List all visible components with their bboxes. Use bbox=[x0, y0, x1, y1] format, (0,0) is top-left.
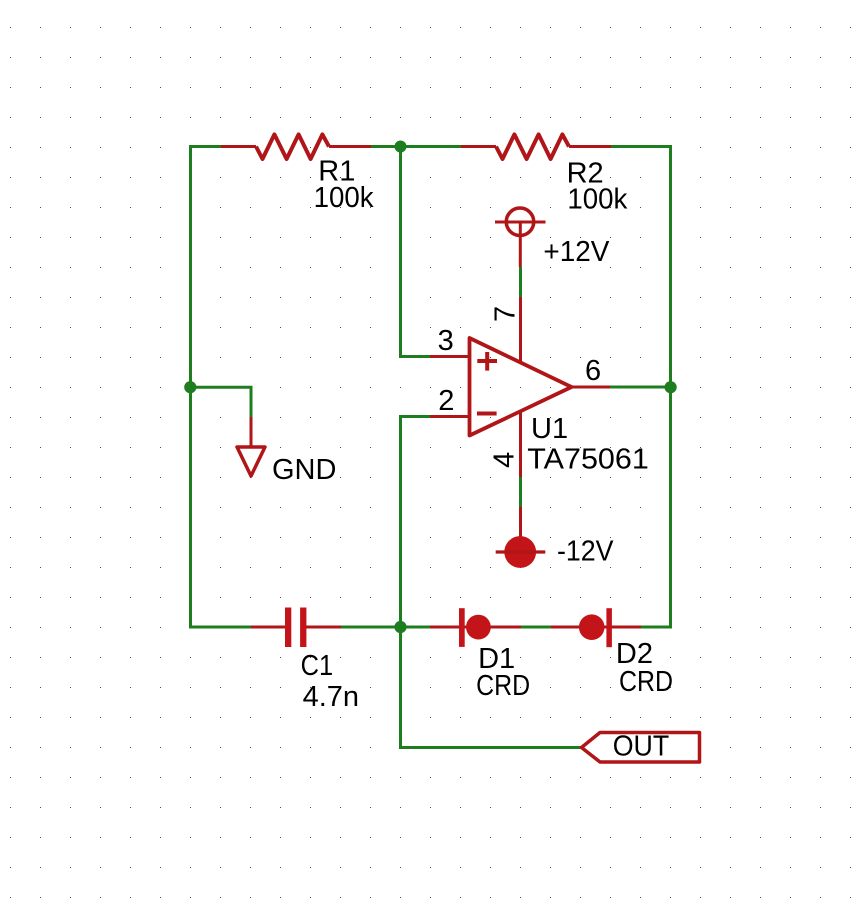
svg-text:U1: U1 bbox=[531, 413, 568, 445]
wire right branch: top-right corner, right vertical, bottom-right stub bbox=[611, 147, 671, 628]
junction node at top wire bbox=[395, 141, 407, 153]
wire stub -12V supply to pin 4 bbox=[519, 477, 522, 507]
wire top middle segment between R1 and R2 through node bbox=[371, 145, 461, 148]
op-amp pin 3 lead bbox=[430, 355, 469, 358]
svg-text:100k: 100k bbox=[567, 184, 627, 216]
op-amp pin 2 lead bbox=[430, 415, 469, 418]
op-amp U1 triangle body bbox=[470, 338, 572, 436]
wire bottom segment C1 to D1 through node bbox=[341, 626, 430, 629]
junction node left at GND branch bbox=[184, 381, 196, 393]
svg-text:100k: 100k bbox=[314, 182, 374, 214]
GND ground symbol bbox=[237, 417, 265, 476]
svg-text:+12V: +12V bbox=[543, 236, 610, 268]
wire op-amp output to right vertical bbox=[610, 386, 671, 389]
svg-text:C1: C1 bbox=[301, 650, 334, 682]
svg-text:CRD: CRD bbox=[619, 666, 673, 698]
svg-text:2: 2 bbox=[438, 385, 454, 417]
op-amp plus marking (non-inverting input) bbox=[477, 352, 497, 371]
diode D2 (CRD, mirrored) bbox=[551, 608, 641, 647]
wire stub +12V supply to pin 7 bbox=[519, 267, 522, 297]
-12V power supply symbol bbox=[496, 507, 546, 568]
junction node right at op-amp output bbox=[665, 381, 677, 393]
op-amp pin 4 supply lead bbox=[519, 411, 522, 477]
svg-text:GND: GND bbox=[272, 454, 336, 486]
svg-text:OUT: OUT bbox=[613, 731, 670, 763]
wire bottom segment D1 to D2 bbox=[519, 626, 556, 629]
wire GND branch from left node bbox=[191, 387, 252, 417]
op-amp pin 6 output lead bbox=[572, 386, 611, 389]
op-amp pin 7 supply lead bbox=[519, 297, 522, 363]
svg-text:7: 7 bbox=[489, 306, 521, 322]
svg-text:TA75061: TA75061 bbox=[527, 444, 649, 476]
svg-text:3: 3 bbox=[438, 325, 454, 357]
resistor R1 bbox=[221, 134, 371, 159]
diode D1 (CRD) bbox=[430, 608, 521, 647]
junction node bottom at C1/D1 bbox=[394, 621, 406, 633]
op-amp minus marking (inverting input) bbox=[477, 412, 497, 416]
svg-text:CRD: CRD bbox=[476, 670, 530, 702]
capacitor C1 bbox=[251, 608, 341, 648]
wire from top node down to op-amp pin 3 bbox=[401, 147, 431, 357]
wire from bottom node to OUT flag bbox=[401, 627, 582, 748]
wire from op-amp pin 2 down to bottom node bbox=[401, 417, 431, 628]
wire left branch: top stub, left vertical, bottom-left stub bbox=[191, 147, 253, 628]
svg-text:4: 4 bbox=[489, 452, 521, 468]
svg-text:4.7n: 4.7n bbox=[303, 681, 359, 713]
resistor R2 bbox=[461, 134, 611, 159]
OUT net flag bbox=[582, 733, 700, 763]
svg-text:-12V: -12V bbox=[557, 536, 614, 568]
+12V power supply symbol bbox=[495, 208, 546, 267]
svg-text:6: 6 bbox=[585, 355, 601, 387]
